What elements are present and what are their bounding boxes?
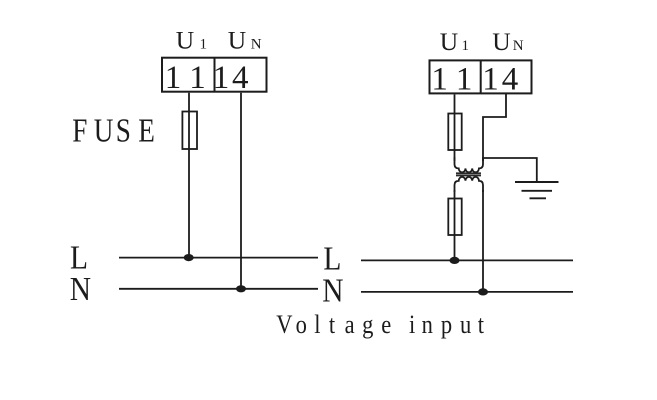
svg-text:4: 4: [232, 60, 249, 96]
svg-text:1: 1: [213, 60, 230, 96]
svg-text:l: l: [314, 310, 320, 339]
line L (left diagram): [119, 257, 318, 259]
wire transformer secondary to fuse F3: [454, 190, 456, 199]
svg-text:F: F: [72, 112, 87, 150]
terminal label 14 (right block): [482, 62, 518, 98]
wire fuse F3 to line L: [454, 235, 456, 260]
svg-text:o: o: [296, 310, 307, 339]
wire transformer secondary to line N: [482, 190, 484, 292]
fuse F3 (lower): [448, 199, 461, 236]
svg-text:t: t: [329, 310, 335, 339]
svg-text:1: 1: [189, 60, 206, 96]
svg-text:1: 1: [462, 38, 470, 54]
svg-text:g: g: [362, 310, 373, 339]
terminal label 11 (left block): [165, 60, 206, 96]
svg-text:V: V: [276, 310, 292, 339]
svg-text:u: u: [460, 310, 471, 339]
svg-text:S: S: [116, 112, 131, 150]
ground symbol: [515, 182, 559, 198]
svg-text:1: 1: [165, 60, 182, 96]
transformer T1 secondary winding: [455, 177, 484, 192]
svg-text:1: 1: [200, 36, 208, 52]
transformer T1 core: [456, 173, 481, 175]
svg-text:N: N: [70, 270, 91, 307]
label U1 (right terminal block): [440, 27, 469, 56]
line N (right diagram): [361, 291, 573, 293]
junction dot fuse wire / line L: [184, 254, 194, 261]
svg-text:U: U: [492, 27, 510, 56]
junction dot fuse F3 wire / line L: [450, 257, 460, 264]
label UN (right terminal block): [492, 27, 524, 56]
svg-text:e: e: [381, 310, 391, 339]
label UN (left terminal block): [228, 25, 262, 54]
fuse F2 (upper): [448, 114, 461, 151]
svg-text:n: n: [422, 310, 433, 339]
wire fuse F1 to line L: [188, 149, 190, 258]
junction dot UN wire / line N: [236, 285, 246, 292]
wire to earth tap: [483, 158, 537, 182]
svg-text:N: N: [251, 36, 262, 52]
transformer T1 primary winding: [455, 157, 484, 172]
svg-text:4: 4: [502, 62, 519, 98]
svg-text:1: 1: [482, 62, 499, 98]
svg-text:U: U: [228, 25, 246, 54]
svg-text:p: p: [441, 310, 452, 339]
terminal label 14 (left block): [213, 60, 249, 96]
svg-text:1: 1: [456, 62, 473, 98]
svg-text:a: a: [345, 310, 355, 339]
label U1 (left terminal block): [176, 25, 207, 54]
wire fuse F2 to transformer primary: [454, 150, 456, 161]
svg-text:U: U: [94, 112, 114, 150]
line L (right diagram): [361, 259, 573, 261]
terminal label 11 (right block): [431, 62, 472, 98]
svg-text:E: E: [138, 112, 155, 150]
svg-text:U: U: [176, 25, 194, 54]
svg-text:N: N: [513, 38, 524, 54]
wire terminal 14 jog to transformer primary: [483, 93, 506, 161]
svg-text:1: 1: [431, 62, 448, 98]
terminal block right: [430, 60, 532, 93]
line N (left diagram): [119, 288, 318, 290]
svg-text:N: N: [322, 272, 343, 309]
svg-text:t: t: [478, 310, 484, 339]
junction dot secondary wire / line N: [478, 288, 488, 295]
fuse F1: [182, 112, 197, 150]
terminal block left: [162, 58, 267, 92]
wire terminal 11 to fuse F2: [454, 94, 456, 113]
svg-text:U: U: [440, 27, 458, 56]
svg-text:i: i: [409, 310, 415, 339]
wire terminal 11 to fuse F1: [188, 93, 190, 112]
wire terminal 14 to line N: [240, 93, 242, 289]
caption Voltage input: [276, 310, 484, 339]
FUSE label: [72, 112, 155, 150]
